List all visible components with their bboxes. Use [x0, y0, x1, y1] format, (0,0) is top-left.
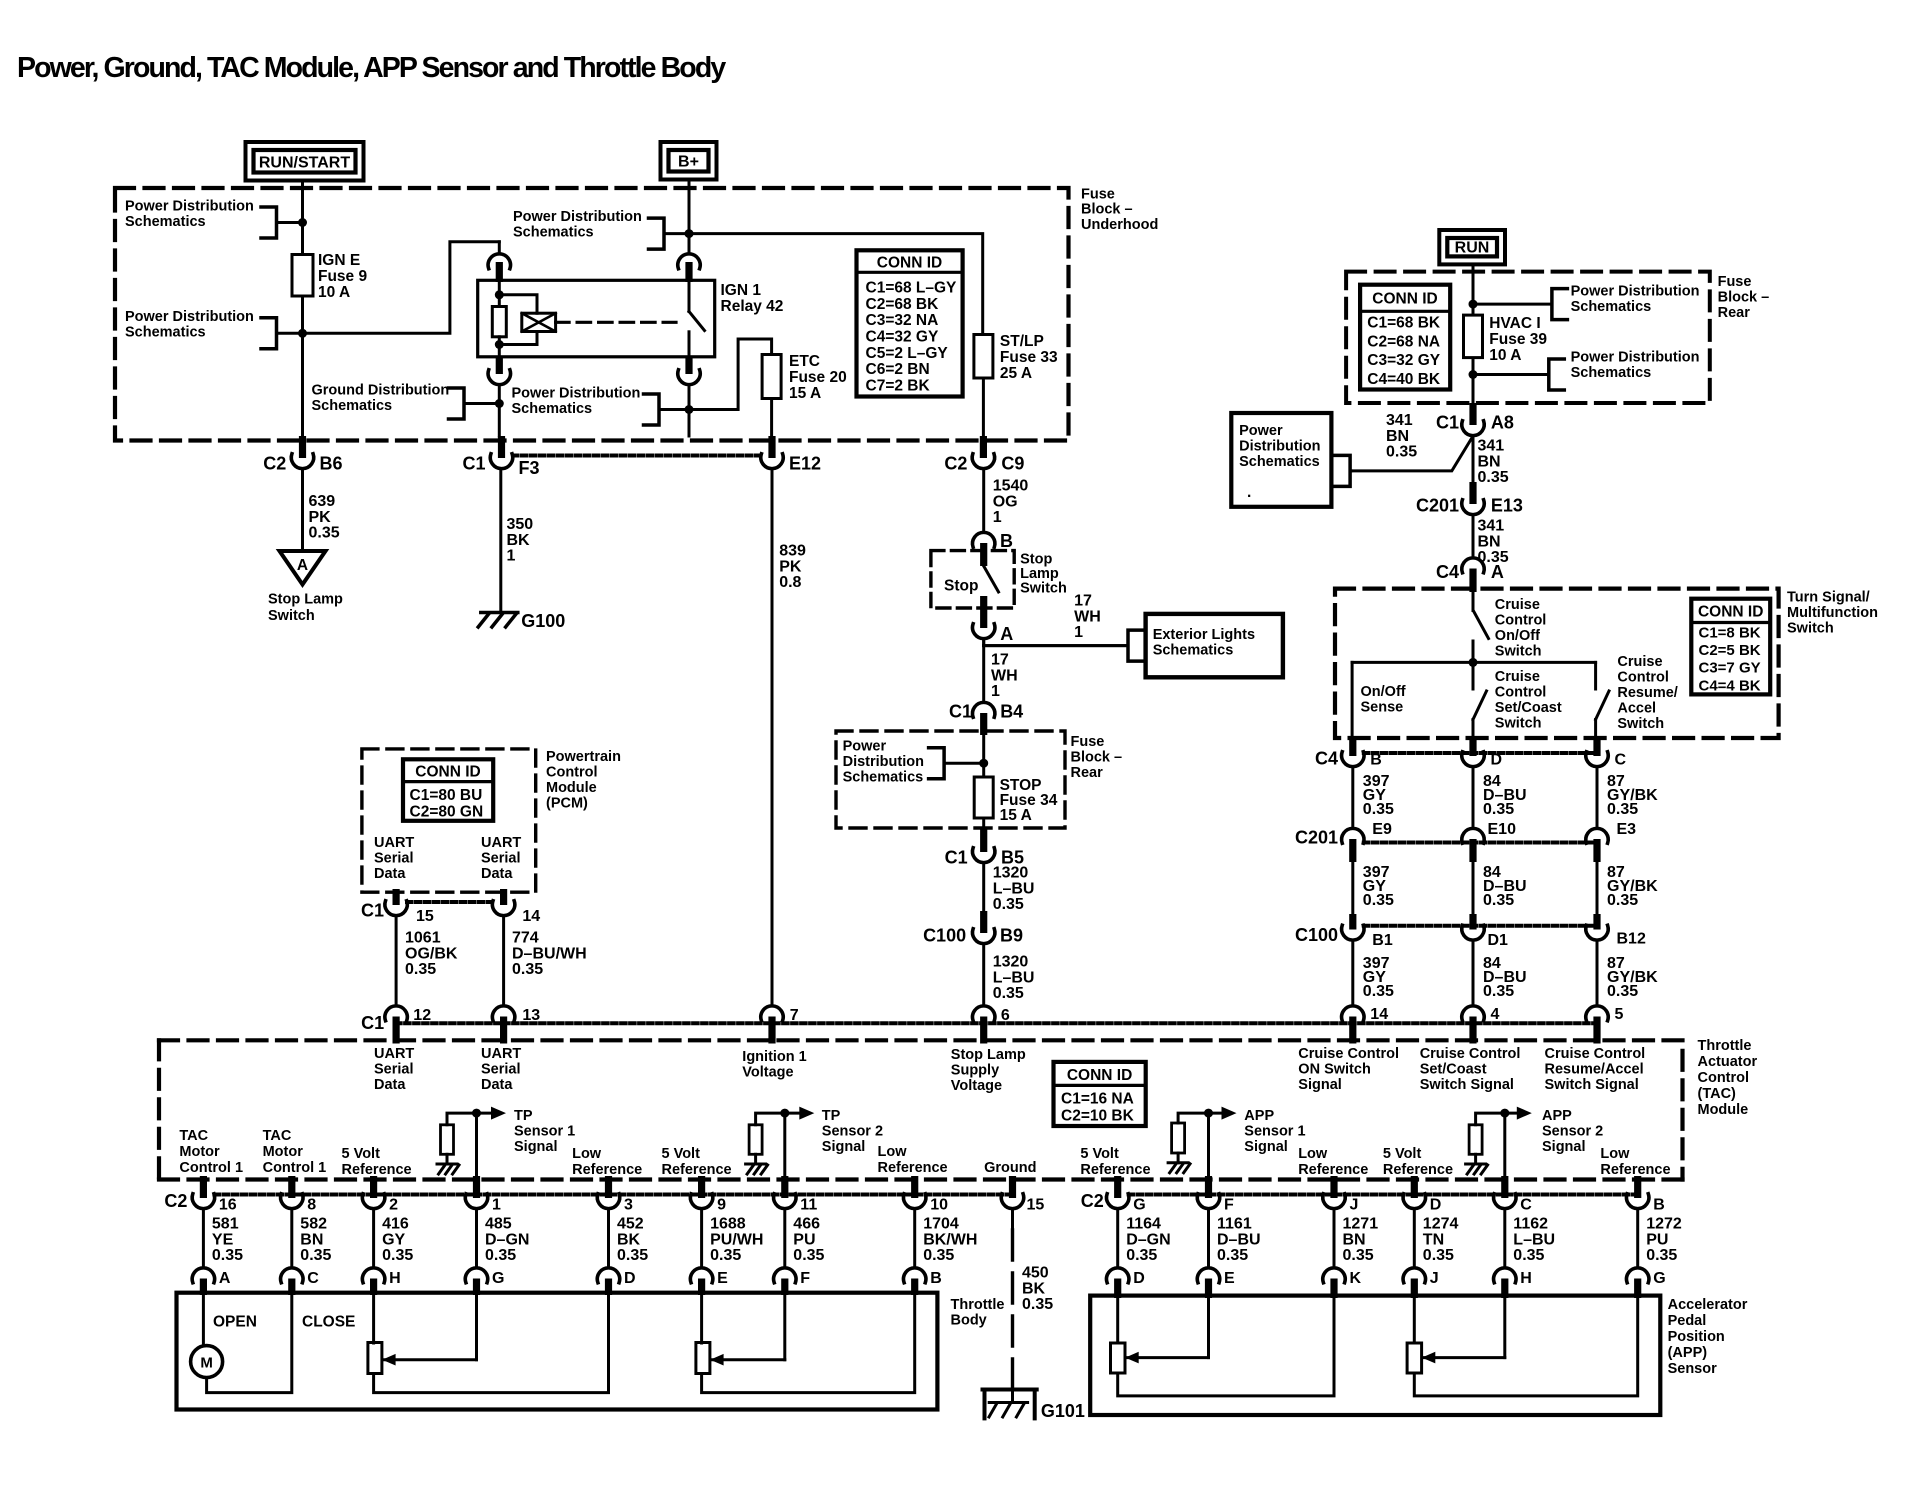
connector D app sensor: [1107, 1268, 1145, 1298]
svg-text:3: 3: [624, 1197, 633, 1214]
svg-text:C1=80 BU: C1=80 BU: [410, 787, 483, 804]
svg-text:2: 2: [389, 1197, 398, 1214]
dotted connector line tac bottom left: [214, 1193, 1012, 1197]
svg-text:1274: 1274: [1423, 1216, 1459, 1233]
svg-text:Fuse: Fuse: [1071, 734, 1105, 750]
connector pin 9 tac: [690, 1176, 726, 1214]
connector pin 15 tac: [1001, 1176, 1044, 1214]
connector pin C tac app: [1494, 1176, 1533, 1214]
svg-text:APP: APP: [1244, 1108, 1274, 1124]
svg-text:TAC: TAC: [263, 1128, 292, 1144]
svg-text:15 A: 15 A: [789, 385, 821, 402]
svg-text:E3: E3: [1617, 821, 1637, 838]
svg-text:C1: C1: [361, 901, 384, 921]
svg-text:485: 485: [485, 1216, 512, 1233]
svg-text:5: 5: [1615, 1006, 1624, 1023]
label accelerator pedal position sensor: [1668, 1297, 1748, 1377]
connector pin 8 tac: [281, 1176, 317, 1214]
svg-text:Stop: Stop: [944, 578, 978, 595]
svg-text:ETC: ETC: [789, 353, 820, 370]
svg-text:M: M: [200, 1355, 213, 1372]
connector 14 cruise: [1342, 1006, 1389, 1044]
connector 5 cruise: [1586, 1006, 1624, 1044]
label wire 341 BN 0.35 below E13: [1478, 518, 1509, 567]
connector E throttle body: [690, 1268, 728, 1295]
svg-text:0.35: 0.35: [1646, 1247, 1677, 1264]
svg-text:Reference: Reference: [1298, 1162, 1368, 1178]
svg-text:Sense: Sense: [1361, 700, 1404, 716]
svg-text:0.35: 0.35: [1483, 892, 1514, 909]
junction node ground distribution: [495, 399, 504, 408]
label IGN 1 Relay 42: [721, 282, 784, 315]
svg-text:B1: B1: [1372, 932, 1393, 949]
connector C2 C9: [944, 436, 1024, 474]
svg-text:BK/WH: BK/WH: [923, 1231, 977, 1248]
wire app pot2 bottom to low ref: [1414, 1297, 1637, 1396]
label wire 84 D-BU row3: [1483, 955, 1527, 1000]
svg-text:0.35: 0.35: [512, 961, 543, 978]
svg-text:TP: TP: [822, 1108, 841, 1124]
fuse IGN E Fuse 9 10A: [292, 255, 313, 297]
svg-text:G: G: [492, 1270, 504, 1287]
svg-text:B4: B4: [1000, 702, 1023, 722]
label power distribution schematics 5: [843, 739, 924, 786]
wire cruise D row1: [1472, 767, 1475, 828]
svg-text:L–BU: L–BU: [993, 969, 1035, 986]
svg-text:Control: Control: [546, 765, 598, 781]
svg-text:Signal: Signal: [514, 1139, 558, 1155]
svg-text:C1=16 NA: C1=16 NA: [1061, 1091, 1134, 1108]
svg-text:Control: Control: [1495, 685, 1547, 701]
svg-text:Power: Power: [1239, 423, 1283, 439]
label open: [213, 1314, 257, 1331]
svg-text:Actuator: Actuator: [1698, 1054, 1758, 1070]
svg-text:Relay 42: Relay 42: [721, 298, 784, 315]
connector C throttle body: [281, 1268, 320, 1295]
svg-text:350: 350: [507, 516, 534, 533]
svg-text:IGN E: IGN E: [318, 252, 360, 269]
label pin E3: [1617, 821, 1637, 838]
wire RUN/START feed: [301, 181, 304, 437]
wire tp pot2 top: [700, 1294, 703, 1343]
svg-text:C2: C2: [263, 454, 286, 474]
svg-text:1320: 1320: [993, 954, 1029, 971]
label wire 1540 OG 1: [993, 478, 1029, 527]
connector 7: [761, 1006, 799, 1044]
label wire 397 GY row3: [1363, 955, 1394, 1000]
svg-text:Rear: Rear: [1071, 765, 1104, 781]
svg-text:0.35: 0.35: [405, 961, 436, 978]
app pot 2: [1407, 1343, 1422, 1373]
svg-text:14: 14: [1370, 1006, 1388, 1023]
conn id table fuse block rear: [1360, 285, 1450, 390]
svg-text:Serial: Serial: [481, 851, 521, 867]
svg-text:C2=10 BK: C2=10 BK: [1061, 1108, 1135, 1125]
svg-text:C4=40 BK: C4=40 BK: [1367, 371, 1441, 388]
svg-text:639: 639: [309, 493, 336, 510]
fuse STOP Fuse 34 15A: [974, 777, 993, 818]
svg-text:Body: Body: [951, 1313, 987, 1329]
svg-text:0.35: 0.35: [1483, 801, 1514, 818]
relay switch wire lower: [499, 332, 689, 356]
svg-text:C2: C2: [164, 1191, 187, 1211]
wire A to B4: [982, 639, 985, 702]
wire tp pot1 bottom to low ref: [374, 1294, 609, 1393]
svg-text:Accelerator: Accelerator: [1668, 1297, 1748, 1313]
svg-text:Rear: Rear: [1718, 305, 1751, 321]
label wire 84 D-BU row2: [1483, 864, 1527, 909]
tac tp sensor 1 junction: [472, 1109, 481, 1118]
svg-text:0.35: 0.35: [1363, 983, 1394, 1000]
wire A8 to E13: [1472, 436, 1475, 493]
label low reference 1: [572, 1146, 642, 1178]
wire A to exterior lights: [984, 639, 1128, 646]
tac tp sensor 2 arrow wire: [756, 1107, 815, 1125]
svg-text:Voltage: Voltage: [951, 1078, 1002, 1094]
svg-text:UART: UART: [481, 1046, 521, 1062]
svg-text:C100: C100: [1295, 925, 1338, 945]
label app sensor 2 signal: [1542, 1108, 1603, 1155]
svg-text:ST/LP: ST/LP: [1000, 333, 1044, 350]
svg-text:C6=2 BN: C6=2 BN: [866, 361, 930, 378]
label uart serial data pcm right: [481, 835, 521, 882]
svg-text:G: G: [1653, 1270, 1665, 1287]
label cruise control setcoast switch: [1495, 669, 1562, 732]
svg-text:Stop Lamp: Stop Lamp: [268, 592, 343, 608]
svg-text:Set/Coast: Set/Coast: [1420, 1062, 1487, 1078]
wire tac pin1 internal: [475, 1113, 478, 1180]
svg-text:0.35: 0.35: [300, 1247, 331, 1264]
wire pin 11 to throttle body: [783, 1209, 786, 1268]
svg-text:14: 14: [522, 908, 540, 925]
svg-text:Distribution: Distribution: [1239, 439, 1320, 455]
label wire 397 GY row2: [1363, 864, 1394, 909]
tac app sensor 2 ground: [1466, 1154, 1488, 1174]
svg-text:B6: B6: [320, 454, 343, 474]
label wire 17 WH 1 branch: [1074, 593, 1101, 642]
svg-text:5 Volt: 5 Volt: [342, 1146, 381, 1162]
label power distribution schematics 2: [125, 309, 254, 341]
label wire 774 D-BU/WH 0.35: [512, 930, 587, 979]
off-page triangle A stop lamp switch: [280, 551, 326, 585]
connector G app sensor: [1626, 1268, 1665, 1298]
connector J app sensor: [1403, 1268, 1439, 1298]
svg-text:Data: Data: [374, 1077, 406, 1093]
connector pin 10 tac: [904, 1176, 949, 1214]
svg-text:C1=8 BK: C1=8 BK: [1699, 625, 1761, 642]
svg-text:Sensor 1: Sensor 1: [514, 1124, 575, 1140]
svg-text:E: E: [1224, 1270, 1235, 1287]
label low reference 3: [1298, 1146, 1368, 1178]
svg-text:Ignition 1: Ignition 1: [742, 1049, 806, 1065]
svg-text:Ground: Ground: [984, 1160, 1036, 1176]
svg-text:C4: C4: [1315, 749, 1338, 769]
svg-text:CONN ID: CONN ID: [1067, 1067, 1132, 1084]
svg-text:341: 341: [1386, 412, 1413, 429]
tac tp sensor 1 pullup resistor: [441, 1125, 454, 1155]
svg-text:C1=68 BK: C1=68 BK: [1367, 315, 1441, 332]
label wire 1688 PU/WH 0.35: [710, 1216, 763, 1265]
svg-text:0.35: 0.35: [1022, 1296, 1053, 1313]
svg-text:15: 15: [1027, 1197, 1045, 1214]
svg-text:466: 466: [793, 1216, 820, 1233]
svg-text:Throttle: Throttle: [951, 1297, 1005, 1313]
tac app sensor 2 arrow wire: [1476, 1107, 1532, 1125]
connector C201 E9: [1295, 828, 1364, 863]
label wire 839 PK 0.8: [779, 543, 806, 592]
label wire 466 PU 0.35: [793, 1216, 824, 1265]
label tp sensor 2 signal: [822, 1108, 883, 1155]
label stop lamp switch ref: [268, 592, 343, 625]
svg-text:Serial: Serial: [481, 1062, 521, 1078]
svg-text:Set/Coast: Set/Coast: [1495, 700, 1562, 716]
label fuse block rear 1: [1718, 274, 1770, 321]
svg-text:RUN: RUN: [1455, 240, 1490, 257]
svg-text:Switch: Switch: [1495, 644, 1542, 660]
svg-text:Low: Low: [1298, 1146, 1328, 1162]
label uart serial data tac 2: [481, 1046, 521, 1093]
svg-text:25 A: 25 A: [1000, 365, 1032, 382]
svg-text:C: C: [1615, 752, 1627, 769]
label 5 volt reference 3: [1080, 1146, 1150, 1178]
svg-text:Data: Data: [481, 1077, 513, 1093]
tac app sensor 2 junction: [1500, 1109, 1509, 1118]
svg-text:0.35: 0.35: [1386, 444, 1417, 461]
svg-text:Fuse 33: Fuse 33: [1000, 349, 1058, 366]
svg-text:On/Off: On/Off: [1495, 628, 1540, 644]
svg-text:416: 416: [382, 1216, 409, 1233]
svg-text:Schematics: Schematics: [513, 225, 594, 241]
connector E10: [1462, 828, 1484, 862]
svg-text:A: A: [219, 1270, 231, 1287]
label pin E9: [1372, 821, 1392, 838]
connector 13: [492, 1006, 540, 1044]
svg-text:1320: 1320: [993, 865, 1029, 882]
svg-text:E13: E13: [1491, 496, 1523, 516]
label wire 416 GY 0.35: [382, 1216, 413, 1265]
svg-text:Switch: Switch: [268, 608, 315, 624]
svg-text:Schematics: Schematics: [125, 325, 206, 341]
svg-text:Supply: Supply: [951, 1063, 999, 1079]
connector pin F tac app: [1197, 1176, 1234, 1214]
wire app pot2 top: [1413, 1297, 1416, 1343]
svg-text:Schematics: Schematics: [312, 398, 393, 414]
wire pin F to app sensor: [1207, 1209, 1210, 1268]
svg-text:BK: BK: [1022, 1280, 1046, 1297]
label turn signal multifunction switch: [1787, 590, 1878, 637]
svg-text:Serial: Serial: [374, 1062, 414, 1078]
svg-text:Power Distribution: Power Distribution: [1571, 350, 1700, 366]
svg-text:E12: E12: [789, 454, 821, 474]
svg-text:0.35: 0.35: [1363, 801, 1394, 818]
svg-text:0.35: 0.35: [1607, 983, 1638, 1000]
svg-text:C: C: [307, 1270, 319, 1287]
fuse ETC Fuse 20 15A: [762, 355, 781, 399]
relay coil junction bottom: [495, 340, 504, 349]
tac app sensor 1 arrow wire: [1178, 1107, 1236, 1123]
label wire 397 GY row1: [1363, 773, 1394, 818]
connector B throttle body: [904, 1268, 942, 1295]
svg-text:0.35: 0.35: [1483, 983, 1514, 1000]
svg-text:Multifunction: Multifunction: [1787, 605, 1878, 621]
stop lamp switch blade: [984, 566, 999, 592]
label power distribution schematics 6: [1571, 284, 1700, 316]
svg-text:C2=68 NA: C2=68 NA: [1367, 333, 1440, 350]
svg-text:0.35: 0.35: [1217, 1247, 1248, 1264]
tac app sensor 1 pullup resistor: [1172, 1123, 1185, 1153]
wire motor open: [202, 1294, 205, 1345]
svg-text:Cruise: Cruise: [1495, 669, 1540, 685]
svg-text:Powertrain: Powertrain: [546, 749, 621, 765]
svg-text:Data: Data: [481, 866, 513, 882]
power feed box RUN/START: [246, 142, 364, 181]
label IGN E fuse: [318, 252, 367, 301]
junction node B+: [685, 229, 694, 238]
relay coil junction top: [495, 290, 504, 299]
pcm pin 14 connector: [492, 889, 540, 925]
dotted connector line cruise row3: [1364, 924, 1597, 928]
wire app pot1 top: [1116, 1297, 1119, 1343]
wire pin C to app sensor: [1503, 1209, 1506, 1268]
wire tp pot1 wiper: [382, 1294, 476, 1366]
label connector C2 tac: [164, 1191, 187, 1211]
svg-text:0.35: 0.35: [1607, 892, 1638, 909]
relay coil resistor: [492, 307, 506, 337]
wire tac pin11 internal: [783, 1113, 786, 1180]
svg-text:Low: Low: [878, 1144, 908, 1160]
svg-text:10 A: 10 A: [318, 284, 350, 301]
connector pin 11 tac: [774, 1176, 818, 1214]
label cruise control onoff switch: [1495, 597, 1547, 660]
turn signal multifunction switch dashed box: [1335, 589, 1779, 738]
wire resume drop upper: [1594, 662, 1597, 689]
svg-text:Power Distribution: Power Distribution: [1571, 284, 1700, 300]
label power distribution schematics 3: [513, 209, 642, 241]
svg-text:D–BU/WH: D–BU/WH: [512, 945, 587, 962]
label throttle actuator control module: [1698, 1038, 1758, 1118]
app pot 1: [1111, 1343, 1126, 1373]
svg-text:F: F: [800, 1270, 810, 1287]
svg-text:ON Switch: ON Switch: [1298, 1062, 1371, 1078]
label 5 volt reference 2: [662, 1146, 732, 1178]
wire cruise C row3: [1596, 941, 1599, 1006]
throttle body box: [177, 1293, 938, 1410]
wire cruise onoff upper: [1472, 592, 1475, 611]
svg-text:0.35: 0.35: [1513, 1247, 1544, 1264]
junction node stop fuse: [979, 759, 988, 768]
svg-text:Fuse: Fuse: [1718, 274, 1752, 290]
svg-text:UART: UART: [481, 835, 521, 851]
label ignition 1 voltage: [742, 1049, 806, 1081]
relay actuation dashed link: [556, 321, 676, 324]
svg-text:D: D: [1430, 1197, 1442, 1214]
svg-text:PK: PK: [779, 558, 802, 575]
svg-text:(PCM): (PCM): [546, 796, 588, 812]
label throttle body: [951, 1297, 1005, 1329]
throttle motor M: [191, 1346, 223, 1378]
wire run/start branch to relay coil: [303, 242, 500, 333]
label power distribution schematics 4: [512, 386, 641, 418]
svg-text:Sensor 2: Sensor 2: [1542, 1124, 1603, 1140]
connector C row1: [1586, 736, 1627, 769]
fuse block rear dashed box 2: [836, 731, 1065, 828]
svg-text:C3=32 NA: C3=32 NA: [866, 312, 939, 329]
label wire 485 D–GN 0.35: [485, 1216, 529, 1265]
svg-text:Control 1: Control 1: [179, 1160, 243, 1176]
svg-text:K: K: [1350, 1270, 1362, 1287]
tac tp sensor 1 arrow wire: [447, 1107, 506, 1125]
label fuse block rear 2: [1071, 734, 1123, 781]
wire sense left drop: [1351, 662, 1354, 738]
wire ST/LP fuse to C9: [982, 378, 985, 436]
svg-text:G101: G101: [1041, 1401, 1085, 1421]
svg-text:BN: BN: [1478, 453, 1501, 470]
svg-text:10: 10: [930, 1197, 948, 1214]
connector H throttle body: [362, 1268, 400, 1295]
label ST/LP fuse: [1000, 333, 1058, 382]
svg-text:C2=80 GN: C2=80 GN: [410, 804, 484, 821]
svg-text:C2=68 BK: C2=68 BK: [866, 296, 940, 313]
svg-text:Resume/Accel: Resume/Accel: [1545, 1062, 1644, 1078]
svg-text:450: 450: [1022, 1265, 1049, 1282]
svg-text:CONN ID: CONN ID: [415, 764, 480, 781]
svg-text:Motor: Motor: [263, 1144, 304, 1160]
svg-text:BN: BN: [1386, 428, 1409, 445]
label ground distribution schematics: [312, 383, 450, 415]
ground G100: [478, 611, 565, 631]
junction node cruise sense: [1469, 658, 1478, 667]
tac tp sensor 2 pullup resistor: [749, 1125, 762, 1155]
relay pin 87 connector bottom right: [678, 358, 700, 436]
svg-text:Switch: Switch: [1787, 621, 1834, 637]
label ground port: [984, 1160, 1036, 1176]
takeout bracket power distribution 7: [1473, 359, 1564, 390]
svg-text:Turn Signal/: Turn Signal/: [1787, 590, 1870, 606]
wire RUN feed: [1472, 264, 1475, 403]
wire F3 to G100: [499, 469, 502, 613]
wire diagonal A8 branch: [1350, 436, 1473, 471]
wire stop fuse to B5: [982, 818, 985, 841]
conn id table tac: [1054, 1062, 1146, 1126]
svg-text:774: 774: [512, 930, 539, 947]
cruise resume accel switch blade: [1596, 691, 1609, 720]
takeout bracket power distribution 6: [1473, 289, 1567, 320]
svg-text:1061: 1061: [405, 930, 441, 947]
svg-text:BK: BK: [617, 1231, 641, 1248]
svg-text:TP: TP: [514, 1108, 533, 1124]
connector C100 B9: [923, 911, 1023, 946]
fuse ST/LP Fuse 33 25A: [974, 335, 993, 379]
svg-text:Low: Low: [572, 1146, 602, 1162]
svg-text:1688: 1688: [710, 1216, 746, 1233]
svg-text:D–GN: D–GN: [1126, 1231, 1170, 1248]
svg-text:1: 1: [507, 548, 516, 565]
svg-text:Resume/: Resume/: [1617, 685, 1677, 701]
svg-text:9: 9: [717, 1197, 726, 1214]
connector pin 1 tac: [465, 1176, 501, 1214]
svg-text:C9: C9: [1001, 454, 1024, 474]
wire onoff sense rail: [1352, 661, 1596, 664]
svg-text:Schematics: Schematics: [1153, 643, 1234, 659]
svg-text:E9: E9: [1372, 821, 1392, 838]
label 5 volt reference 4: [1383, 1146, 1453, 1178]
conn id table turn signal: [1691, 599, 1770, 695]
svg-text:Fuse 39: Fuse 39: [1489, 331, 1547, 348]
svg-text:Reference: Reference: [878, 1160, 948, 1176]
wire cruise B row2: [1351, 862, 1354, 918]
svg-text:Cruise: Cruise: [1495, 597, 1540, 613]
svg-text:Power Distribution: Power Distribution: [512, 386, 641, 402]
